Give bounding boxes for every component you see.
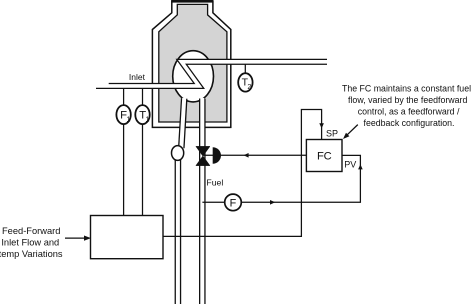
heat exchanger drum [173, 51, 214, 102]
FC controller box [306, 140, 342, 172]
svg-text:PV: PV [344, 160, 356, 170]
svg-text:Fuel: Fuel [206, 177, 223, 187]
svg-text:feedback configuration.: feedback configuration. [364, 118, 455, 128]
arrowhead rightward on F line [270, 200, 275, 205]
svg-text:2: 2 [247, 82, 251, 91]
signal: feed-forward output to FC setpoint [163, 110, 322, 237]
feed-forward caption [0, 226, 63, 259]
svg-text:1: 1 [126, 115, 130, 124]
arrowhead into SP [319, 123, 324, 128]
instrument T2 [238, 73, 252, 91]
instrument F1 [116, 105, 130, 124]
svg-text:SP: SP [326, 128, 338, 138]
signal: F1 drop line [123, 89, 125, 106]
svg-text:FC: FC [317, 151, 332, 163]
svg-text:flow, varied by the feedforwar: flow, varied by the feedforward [348, 95, 467, 105]
FC annotation text [342, 84, 471, 129]
svg-text:control, as a feedforward /: control, as a feedforward / [358, 107, 460, 117]
instrument T1 [135, 105, 149, 124]
control valve body [196, 146, 210, 165]
annotation arrow to FC box [347, 125, 358, 135]
process pipe: inlet, exchanger zigzag, outlet [93, 62, 329, 86]
pump ball on left fuel pipe [172, 146, 184, 161]
arrowhead toward valve [244, 153, 249, 158]
fuel pipe left (vertical) [178, 98, 184, 304]
svg-text:Feed-Forward: Feed-Forward [2, 226, 60, 236]
svg-text:1: 1 [145, 115, 149, 124]
svg-text:The FC maintains a constant fu: The FC maintains a constant fuel [342, 84, 471, 94]
valve actuator dome [213, 147, 221, 164]
open staggered left end of inlet pipe [93, 82, 109, 85]
arrowhead upward into PV [358, 164, 363, 169]
instrument F flow transmitter [225, 194, 242, 211]
furnace vessel outer shell [152, 1, 230, 127]
fuel pipe right (vertical) [199, 98, 206, 304]
furnace inner liner [159, 4, 227, 122]
furnace stack top cap [171, 0, 213, 3]
signal: flow transmitter line to PV [202, 155, 360, 202]
svg-text:Inlet Flow and: Inlet Flow and [1, 238, 59, 248]
signal: T2 drop line [244, 65, 246, 74]
signal: FC output to valve [203, 154, 306, 156]
signal: feed-forward input arrow [65, 237, 85, 239]
svg-text:temp Variations: temp Variations [0, 249, 63, 259]
signal: T1 drop line [142, 89, 144, 106]
svg-text:Inlet: Inlet [129, 72, 146, 82]
feed-forward box [91, 216, 164, 259]
svg-text:F: F [230, 197, 237, 209]
